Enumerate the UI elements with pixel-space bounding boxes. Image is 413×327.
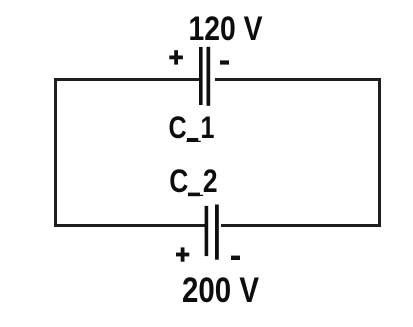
svg-text:120 V: 120 V [189,10,263,48]
svg-text:C_2: C_2 [169,163,217,199]
svg-text:C_1: C_1 [169,110,215,145]
svg-text:200 V: 200 V [182,270,259,310]
